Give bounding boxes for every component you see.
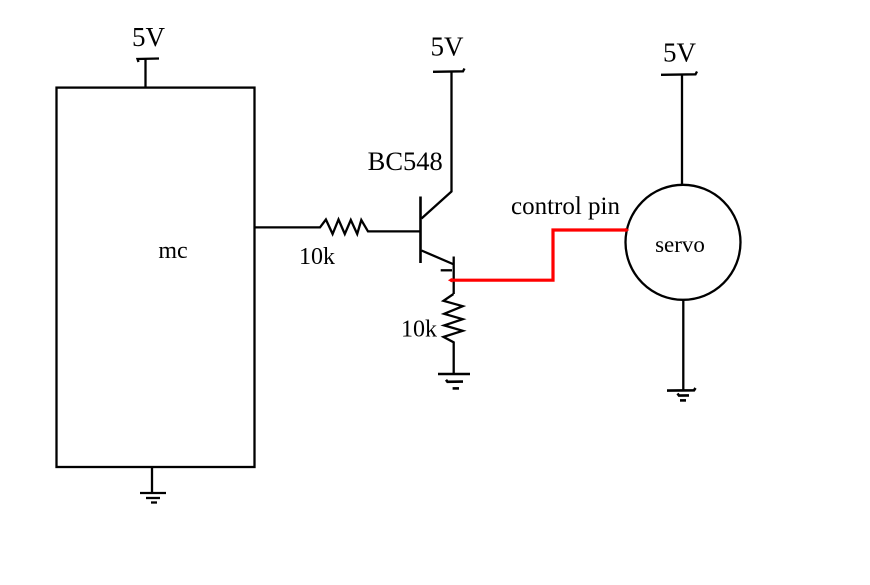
svg-text:5V: 5V [431, 32, 465, 62]
svg-text:5V: 5V [663, 38, 697, 68]
svg-text:BC548: BC548 [368, 146, 443, 176]
svg-text:5V: 5V [132, 22, 166, 52]
svg-text:mc: mc [158, 238, 187, 264]
svg-text:servo: servo [655, 232, 705, 257]
svg-text:10k: 10k [299, 244, 335, 270]
svg-text:10k: 10k [401, 317, 437, 343]
svg-text:control pin: control pin [511, 193, 621, 220]
